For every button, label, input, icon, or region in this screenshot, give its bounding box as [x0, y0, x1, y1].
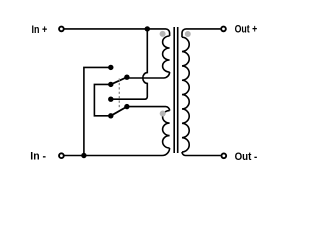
phase dot secondary — [185, 31, 191, 37]
phase dot primary S2 — [160, 111, 166, 117]
mechanical gang link (dashed) between switch arms — [118, 79, 120, 109]
terminal Out+ — [221, 27, 226, 32]
svg-text:Out -: Out - — [235, 151, 258, 163]
wire bracket joining throws T2 and T4 — [94, 84, 110, 115]
switch pole contact P1 — [124, 75, 129, 80]
switch throw contact T2 — [108, 82, 113, 87]
wire pole P2 to primary winding section S2 top — [127, 107, 170, 111]
switch throw contact T1 — [108, 65, 113, 70]
wire throw T1 to In- junction (bracket) — [84, 67, 111, 155]
switch arm pole P1 (gang section 1) — [111, 77, 127, 84]
svg-text:Out +: Out + — [235, 24, 258, 36]
junction node on In+ rail — [145, 26, 150, 31]
junction node on In- rail — [81, 153, 86, 158]
wire In+ top rail to primary winding top — [64, 29, 169, 36]
wire secondary bottom to Out- terminal — [182, 152, 221, 156]
primary winding section S1 (top, 3 turns) — [163, 36, 170, 72]
switch pole contact P2 — [124, 104, 129, 109]
transformer core line 2 — [177, 27, 179, 153]
switch throw contact T4 — [108, 113, 113, 118]
primary winding section S2 (bottom, 3 turns) — [163, 111, 170, 148]
svg-text:In +: In + — [32, 24, 48, 36]
transformer core line 1 — [173, 27, 175, 153]
svg-text:In -: In - — [30, 150, 46, 162]
wire tap T1: S1 bottom exit to pole P1 — [127, 72, 170, 78]
phase dot primary S1 — [160, 31, 166, 37]
secondary winding (8 turns) — [182, 37, 189, 152]
terminal In+ — [59, 27, 64, 32]
wire In+ junction down with hop over tap wire to throw T3 — [111, 29, 148, 99]
switch throw contact T3 — [108, 97, 113, 102]
wire secondary top to Out+ terminal — [182, 29, 220, 37]
wire S2 bottom exit to In- bottom rail — [64, 148, 169, 156]
terminal In- — [59, 153, 64, 158]
switch arm pole P2 (gang section 2) — [111, 107, 127, 116]
terminal Out- — [221, 153, 226, 158]
